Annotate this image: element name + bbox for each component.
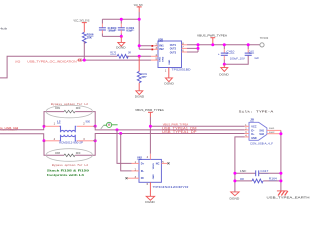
svg-text:J8: J8	[250, 117, 254, 121]
svg-text:VBUS_PWR_TYPEA: VBUS_PWR_TYPEA	[135, 108, 164, 112]
svg-text:1NF: 1NF	[240, 169, 247, 173]
off-page connector chevrons	[78, 59, 82, 62]
pin names inside	[141, 162, 160, 180]
wire cap ground link	[224, 56, 248, 65]
power symbol VCC_3V3_SYS	[74, 19, 90, 33]
svg-text:DGND: DGND	[230, 196, 241, 200]
svg-text:VBUS_PWR_TYPEA: VBUS_PWR_TYPEA	[197, 33, 227, 37]
svg-text:900: 900	[86, 120, 91, 124]
svg-text:DGND: DGND	[145, 200, 155, 204]
svg-text:USB_TYPEA_EARTH: USB_TYPEA_EARTH	[267, 196, 310, 200]
left pin stubs	[128, 163, 140, 178]
power symbol VBUS_PWR_TYPEA (mid)	[135, 108, 164, 117]
svg-text:IN2: IN2	[159, 48, 164, 51]
ground DGND (earth network)	[230, 192, 241, 201]
svg-text:Stack R158 & R159: Stack R158 & R159	[47, 168, 89, 172]
wire GND row	[235, 137, 245, 192]
svg-text:VCC_5V0: VCC_5V0	[134, 3, 143, 7]
svg-text:U38: U38	[158, 37, 163, 41]
pin numbers left	[156, 43, 158, 60]
junction EN pulldown	[138, 55, 141, 58]
wire ESD D+ drop	[121, 134, 132, 171]
ground DGND (cap bracket)	[116, 36, 126, 49]
annotation ellipse top	[46, 105, 92, 118]
svg-text:R158: R158	[55, 152, 60, 155]
pin names inside	[251, 125, 264, 140]
junction dots earth network	[233, 172, 236, 175]
test point TP203	[260, 36, 269, 47]
pin numbers	[54, 123, 86, 141]
svg-text:1uF: 1uF	[254, 56, 259, 60]
svg-text:C410: C410	[227, 50, 235, 54]
wire cap bracket bottom	[102, 35, 121, 37]
svg-text:Silk: TYPE-A: Silk: TYPE-A	[239, 109, 274, 113]
svg-text:10K: 10K	[87, 35, 93, 39]
wire VCC_5V0 column	[139, 12, 151, 49]
svg-text:TPS2051BD: TPS2051BD	[172, 67, 191, 71]
bypass loop bottom	[44, 141, 95, 156]
svg-text:footprints with L3: footprints with L3	[47, 173, 84, 177]
svg-text:100uF_10V: 100uF_10V	[230, 56, 245, 60]
svg-text:ID: ID	[141, 177, 144, 180]
wire OUT2/OUT3 join	[187, 45, 198, 52]
svg-text:C417: C417	[260, 169, 268, 173]
resistor R159	[55, 107, 81, 113]
wire EN to R169	[138, 56, 140, 71]
bottom pin stub	[168, 68, 170, 78]
svg-text:OUT2: OUT2	[170, 48, 177, 51]
wire DM in with jog	[0, 126, 45, 129]
wire VBUS bus	[187, 44, 260, 46]
resistor R164	[240, 177, 277, 183]
pin numbers right	[182, 42, 184, 52]
svg-text:VBUS: VBUS	[153, 163, 155, 170]
pin numbers left	[245, 125, 247, 138]
ground DGND (U38)	[164, 78, 174, 86]
svg-text:USB_TYPEA1_DP: USB_TYPEA1_DP	[162, 130, 197, 134]
svg-text:Bypass option for L2: Bypass option for L2	[52, 163, 89, 167]
annotation ellipse bottom	[46, 149, 92, 162]
svg-text:CON_USB-A_4_F: CON_USB-A_4_F	[250, 142, 273, 146]
svg-text:L2: L2	[57, 120, 61, 124]
svg-text:D-: D-	[251, 129, 254, 132]
IC U62 TPD4S012	[126, 154, 189, 197]
bottom pin stub GND	[149, 182, 151, 196]
winding top	[60, 126, 77, 132]
capacitor C411	[245, 45, 260, 60]
pin names inside	[159, 44, 176, 65]
svg-text:USB_TYPEA_OC_INDICATION: USB_TYPEA_OC_INDICATION	[27, 60, 76, 64]
svg-text:DGND: DGND	[219, 72, 229, 76]
wire shield to earth	[280, 130, 282, 191]
svg-text:SH2: SH2	[259, 133, 264, 136]
svg-text:(A2): (A2)	[15, 60, 20, 64]
wire ESD D- drop	[117, 130, 132, 164]
wire VBUS vertical to ESD	[149, 117, 151, 154]
capacitor C400	[99, 19, 117, 36]
junction choke left	[43, 125, 46, 128]
shield stubs right	[267, 130, 281, 133]
svg-text:TP203: TP203	[260, 36, 269, 40]
ground DGND (R169)	[135, 83, 145, 99]
svg-text:0.1uF: 0.1uF	[126, 29, 132, 33]
wire DP jog to D+ row	[93, 134, 245, 141]
common-mode choke L2	[45, 120, 93, 145]
svg-text:0R: 0R	[240, 177, 244, 181]
pin pads	[151, 45, 153, 47]
capacitor C401	[118, 19, 135, 36]
svg-text:VCC_3V3_SYS: VCC_3V3_SYS	[74, 19, 90, 23]
svg-text:DNI: DNI	[76, 107, 81, 110]
wire DM jog to D- row	[93, 126, 245, 130]
svg-text:C411: C411	[249, 49, 255, 53]
svg-text:OUT3: OUT3	[170, 51, 177, 54]
capacitor C417	[240, 169, 269, 176]
capacitor C410	[218, 45, 245, 65]
right pin stub NC	[161, 162, 167, 164]
wire EN net from off-page left	[0, 56, 151, 78]
svg-text:DGND: DGND	[135, 94, 145, 98]
power symbol VBUS_PWR_TYPEA (bus)	[197, 33, 227, 44]
connector J8 CON_USB-A_4_F	[245, 117, 281, 145]
junction choke right	[94, 125, 97, 128]
svg-text:NC: NC	[156, 162, 160, 165]
wire R166 to OC line	[83, 42, 85, 61]
no-connect x pin3	[126, 177, 128, 179]
svg-text:DNI: DNI	[76, 152, 81, 155]
svg-text:P.Hub: P.Hub	[0, 27, 8, 31]
svg-text:Bypass option for L2: Bypass option for L2	[51, 102, 89, 106]
svg-text:R159: R159	[55, 107, 60, 110]
junction	[83, 59, 86, 62]
svg-text:GND: GND	[251, 137, 257, 140]
wire earth resistor row	[235, 180, 281, 182]
earth symbol USB_TYPEA_EARTH	[267, 191, 310, 200]
ground DGND (C410)	[219, 64, 229, 76]
power symbol VCC_5V0	[134, 3, 143, 12]
svg-text:10uF: 10uF	[108, 29, 116, 33]
svg-text:10K: 10K	[142, 75, 146, 79]
svg-text:GND: GND	[169, 59, 171, 64]
pin stubs left	[151, 46, 158, 60]
svg-text:GND: GND	[153, 174, 155, 179]
IC U38 TPS2051BD	[151, 37, 191, 77]
wire cap bracket top	[102, 18, 139, 20]
svg-text:OUT1: OUT1	[170, 44, 177, 47]
svg-text:DGND: DGND	[116, 46, 126, 50]
pin numbers	[135, 161, 165, 186]
annotation green marker	[101, 122, 118, 129]
resistor R166	[82, 32, 93, 43]
svg-text:U62: U62	[137, 155, 142, 159]
resistor R158	[55, 152, 81, 157]
svg-text:SH1: SH1	[259, 129, 264, 132]
svg-text:D-: D-	[141, 170, 145, 173]
svg-text:R170: R170	[110, 51, 116, 55]
bypass loop top	[44, 112, 95, 127]
svg-text:VCC: VCC	[251, 125, 257, 128]
junction dots cap bracket	[120, 18, 123, 21]
pin stubs	[45, 126, 93, 141]
wire VCC row	[150, 125, 244, 127]
top pin stub VBUS	[149, 154, 151, 160]
winding bottom	[60, 135, 77, 141]
junction D+ to ESD	[119, 132, 122, 135]
svg-text:DGND: DGND	[164, 82, 174, 86]
wire earth cap row	[235, 172, 281, 174]
resistor R170	[110, 51, 131, 58]
wire DP in with jog	[0, 134, 45, 141]
svg-text:ACM2012-900-2P: ACM2012-900-2P	[59, 141, 84, 144]
left pin stubs	[245, 126, 249, 137]
ground DGND (U62)	[145, 196, 155, 204]
svg-text:R164: R164	[269, 177, 277, 181]
pin stubs right	[182, 45, 188, 52]
resistor R169	[137, 71, 147, 82]
wire OC net stub	[81, 59, 151, 61]
svg-text:TPD4S012DRYR: TPD4S012DRYR	[153, 185, 189, 189]
junction D- to ESD	[116, 128, 119, 131]
